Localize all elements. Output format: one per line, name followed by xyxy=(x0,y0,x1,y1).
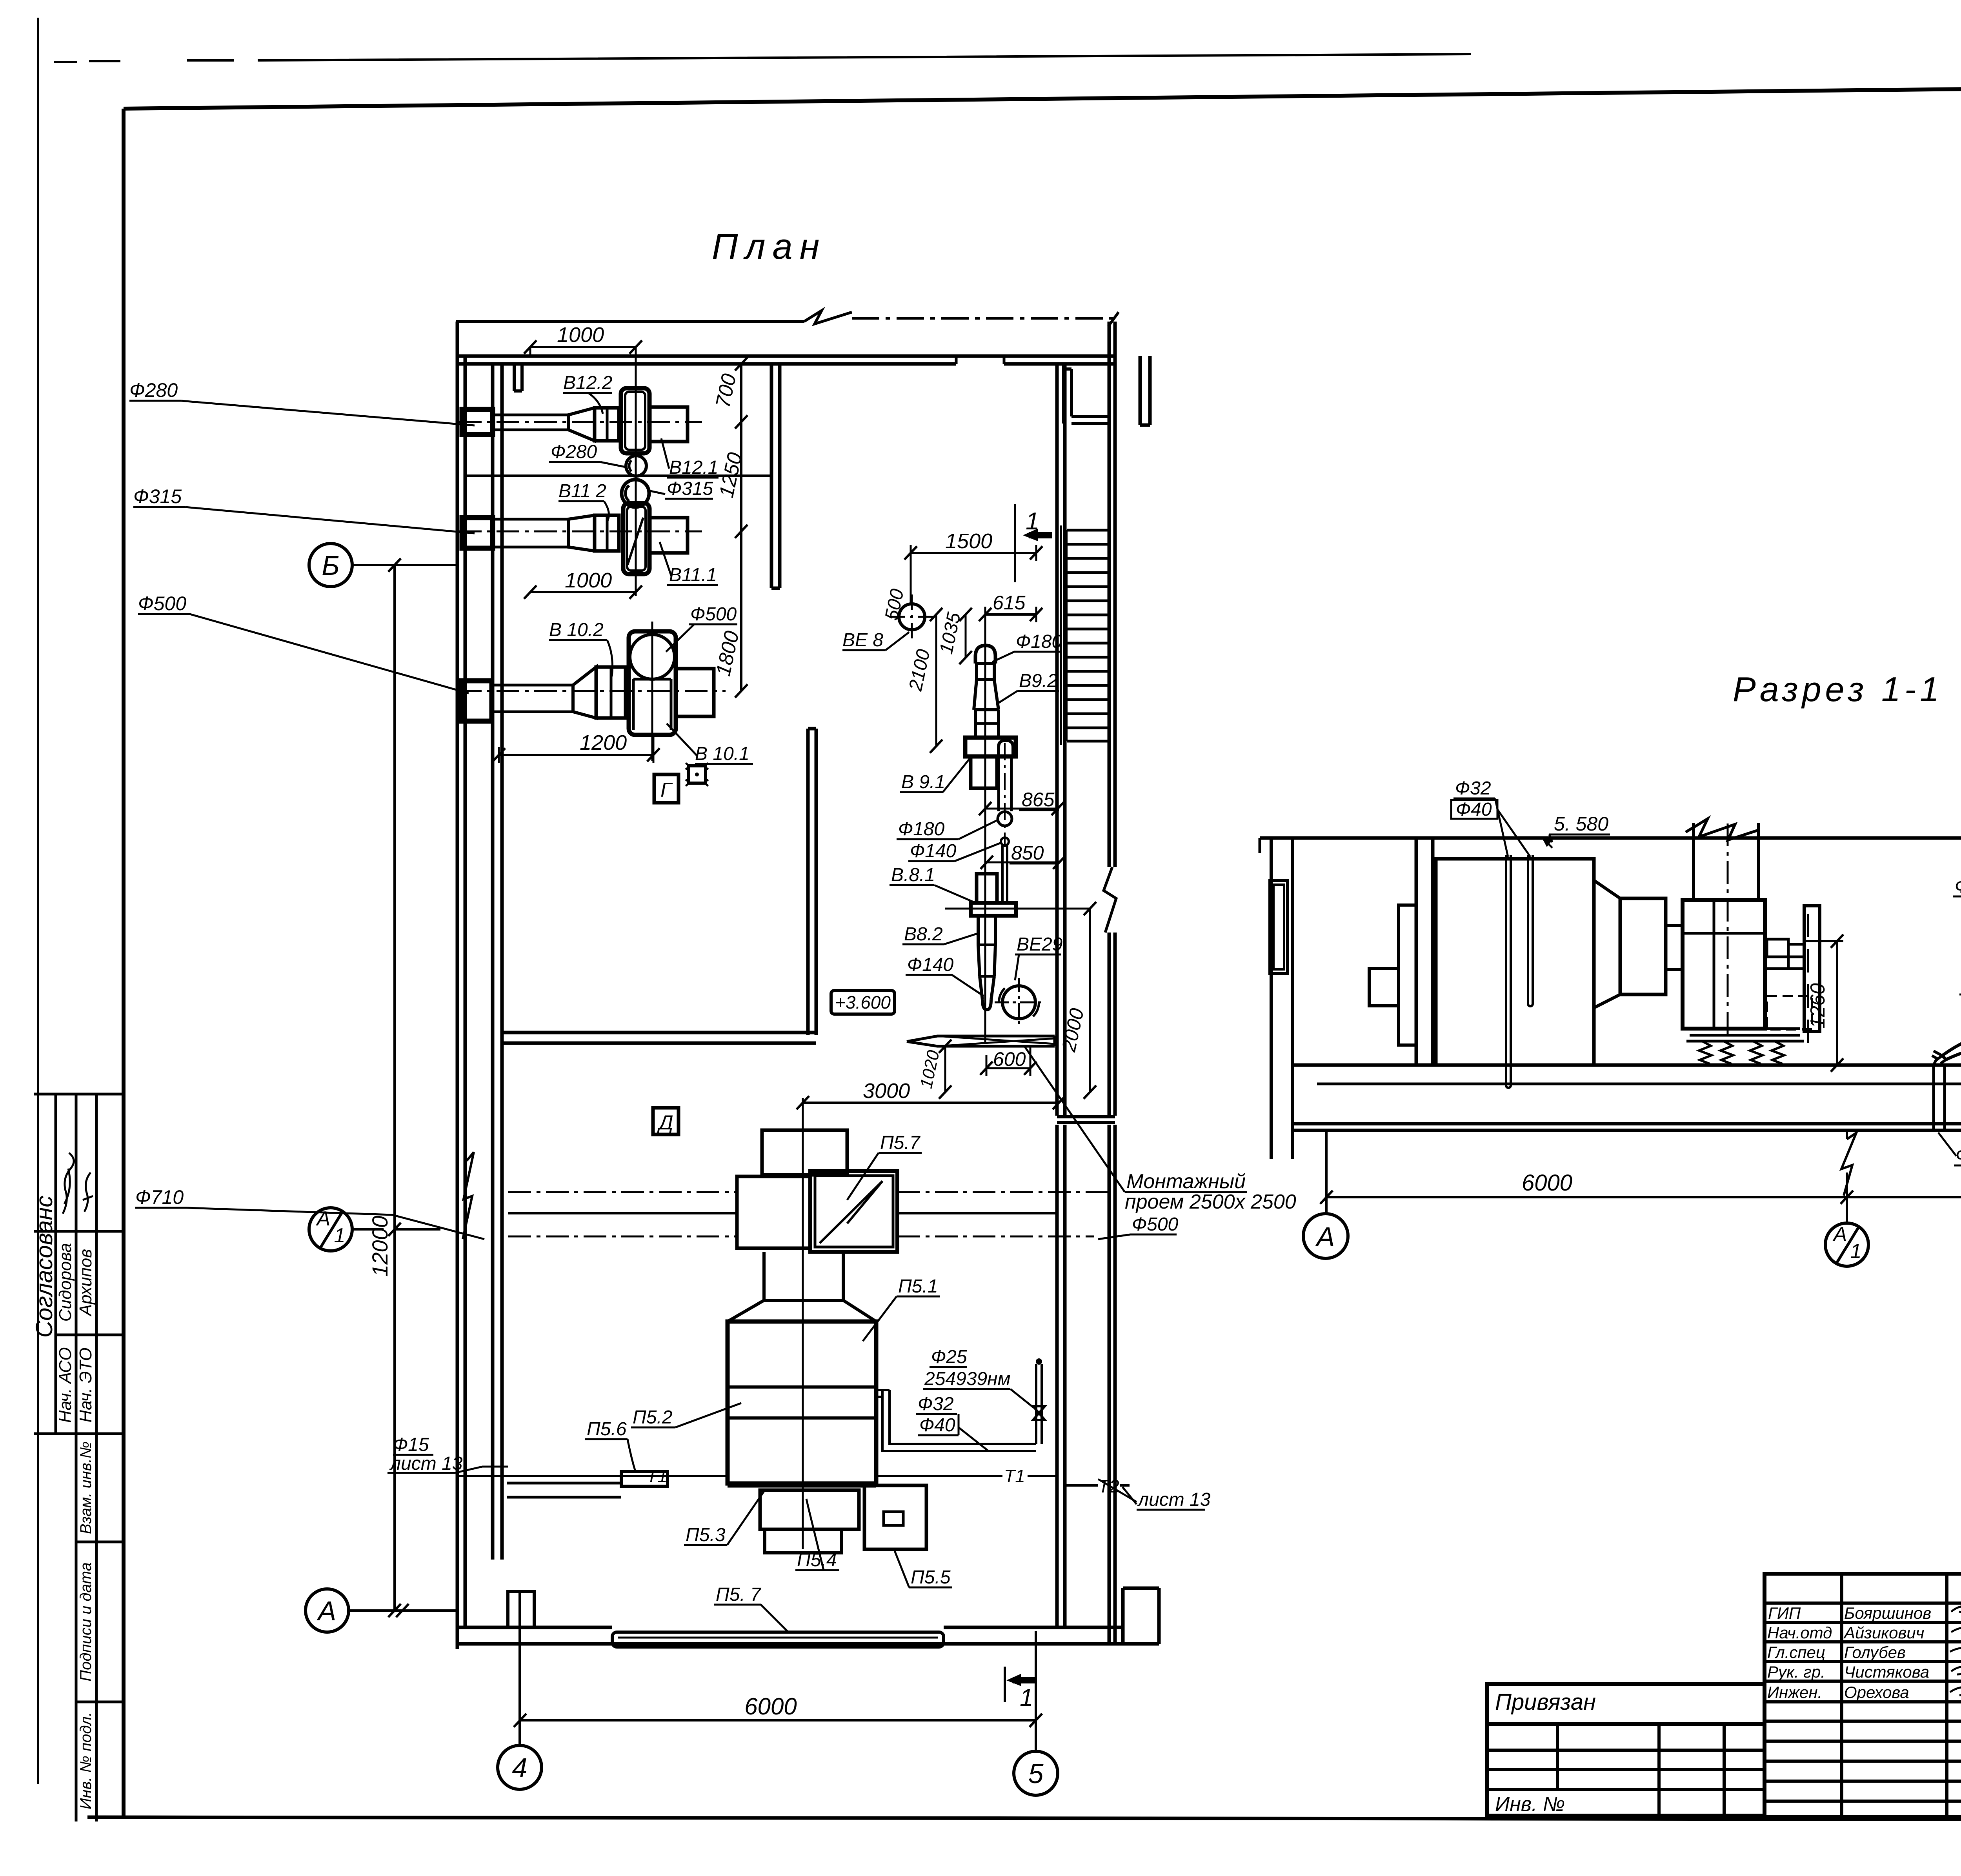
svg-text:Т1: Т1 xyxy=(646,1466,668,1486)
label F40 box xyxy=(1451,800,1497,819)
circle F280 xyxy=(626,456,646,476)
dim 2000 rotated xyxy=(945,909,1090,1092)
grid bubble 5 xyxy=(1014,1751,1058,1795)
V8 taper down xyxy=(978,916,995,1010)
dim 12000 end ticks xyxy=(388,558,401,1617)
svg-text:3000: 3000 xyxy=(863,1079,910,1103)
list 13 right label xyxy=(1137,1489,1211,1510)
svg-text:6000: 6000 xyxy=(1522,1170,1572,1196)
V11 taper xyxy=(568,515,595,551)
svg-text:5. 580: 5. 580 xyxy=(1554,813,1608,835)
dim 600 xyxy=(986,1067,1030,1069)
room line under V12 xyxy=(465,474,771,477)
svg-text:Д: Д xyxy=(657,1111,673,1134)
V8 collar xyxy=(971,903,1016,916)
svg-text:Ф500: Ф500 xyxy=(690,604,737,625)
interior chase double xyxy=(493,364,502,1560)
label F140 mid xyxy=(910,841,957,862)
discharge duct up through roof xyxy=(1694,823,1759,900)
stairs rungs xyxy=(1067,530,1109,741)
P5 vertical centerline xyxy=(802,1098,804,1549)
svg-text:12000: 12000 xyxy=(367,1216,392,1277)
dim 2100 rotated xyxy=(935,614,937,746)
V9 discharge pipe down xyxy=(999,756,1011,811)
label D box xyxy=(653,1108,679,1134)
V12 fan xyxy=(621,388,649,453)
svg-text:Ф500: Ф500 xyxy=(138,593,186,614)
door stub top left room xyxy=(514,364,522,391)
svg-text:Б: Б xyxy=(322,550,340,581)
svg-text:Ф280: Ф280 xyxy=(551,442,597,462)
supply duct lines right xyxy=(897,1191,1109,1193)
grid line 4 xyxy=(518,1591,521,1745)
svg-text:В.8.1: В.8.1 xyxy=(891,865,935,885)
svg-text:Инв. № подл.: Инв. № подл. xyxy=(77,1712,95,1809)
svg-text:Архипов: Архипов xyxy=(76,1249,95,1317)
stamp row: podpisi bottom xyxy=(76,1701,124,1703)
svg-text:1: 1 xyxy=(1020,1684,1033,1711)
svg-text:1260: 1260 xyxy=(1806,983,1829,1029)
svg-text:Рук. гр.: Рук. гр. xyxy=(1767,1663,1825,1681)
svg-text:6000: 6000 xyxy=(744,1693,797,1720)
motor top blocks xyxy=(1767,939,1788,957)
montage opening label xyxy=(1125,1170,1296,1213)
T2 line xyxy=(1065,1484,1130,1487)
svg-text:П5.2: П5.2 xyxy=(633,1407,673,1428)
stamp col line 3 xyxy=(95,1094,98,1821)
VE29 label xyxy=(1017,934,1062,955)
svg-text:1000: 1000 xyxy=(557,323,604,347)
frame top border xyxy=(124,82,1961,109)
svg-text:Ф180: Ф180 xyxy=(1016,631,1062,652)
sig squiggle r2 xyxy=(1951,1627,1961,1634)
sig row texts xyxy=(1767,1604,1931,1701)
sig squiggle r3 xyxy=(1950,1646,1961,1657)
svg-text:Нач.отд: Нач.отд xyxy=(1767,1623,1832,1642)
V10 discharge duct xyxy=(676,669,714,716)
stamp signature squiggle 1 xyxy=(63,1153,74,1214)
V10 centerline xyxy=(459,690,726,692)
grid4 column stub xyxy=(508,1591,534,1627)
svg-text:Ф500: Ф500 xyxy=(1132,1214,1179,1235)
label P5.6 xyxy=(587,1419,627,1440)
label F500 xyxy=(690,604,737,625)
svg-text:А: А xyxy=(1315,1222,1335,1252)
svg-text:Орехова: Орехова xyxy=(1844,1683,1909,1701)
svg-text:В12.2: В12.2 xyxy=(563,373,612,393)
svg-text:В 10.2: В 10.2 xyxy=(549,620,604,640)
V11 centerline xyxy=(459,531,702,533)
label F32 xyxy=(1455,778,1491,799)
stamp row: vzam inv bottom xyxy=(76,1541,124,1543)
lower-left grid col 3 xyxy=(1723,1724,1726,1816)
grid bubble 4 xyxy=(498,1745,542,1789)
P5 damper left rect xyxy=(737,1176,810,1248)
label P5.1 xyxy=(898,1276,938,1297)
label P5.7 top xyxy=(880,1133,921,1153)
svg-text:Подписи и дата: Подписи и дата xyxy=(77,1562,95,1681)
V10 fan inner lines xyxy=(633,679,671,730)
svg-text:П5.5: П5.5 xyxy=(911,1567,951,1588)
label V9.2 xyxy=(1019,671,1058,691)
V9 discharge pipe cap xyxy=(999,740,1013,756)
label V9.1 xyxy=(901,772,945,793)
heater big box xyxy=(1436,859,1594,1065)
V9.1 motor xyxy=(971,756,997,788)
lower-left grid row 3 xyxy=(1487,1788,1765,1791)
label P5.3 xyxy=(686,1525,726,1545)
P5.1 inner lines xyxy=(728,1387,876,1418)
sig squiggle r1 xyxy=(1951,1606,1961,1613)
V12 discharge duct xyxy=(649,407,688,442)
floor second line xyxy=(1317,1083,1961,1085)
V8.3 left elbow xyxy=(1932,1051,1946,1065)
top right pilaster xyxy=(1140,356,1150,425)
svg-text:Ф 140: Ф 140 xyxy=(1955,876,1961,897)
svg-text:Ф710: Ф710 xyxy=(135,1186,184,1208)
label P5.4 xyxy=(797,1550,837,1571)
F25 riser pipe xyxy=(1036,1364,1042,1444)
svg-text:П5. 7: П5. 7 xyxy=(716,1584,762,1605)
V11 duct from wall xyxy=(493,519,568,547)
partition wall upper xyxy=(771,365,780,588)
svg-text:Ф280: Ф280 xyxy=(129,379,178,401)
pipe f40 in box xyxy=(1528,855,1533,1006)
bubble A sec xyxy=(1303,1214,1348,1258)
svg-text:1: 1 xyxy=(1850,1240,1862,1263)
VE8 circle xyxy=(899,604,925,630)
bottom wall double xyxy=(458,1627,1159,1644)
svg-text:А: А xyxy=(316,1207,331,1230)
ceiling left end tick xyxy=(1259,838,1261,853)
P5.5 box xyxy=(864,1485,926,1549)
section mark 1 bottom xyxy=(1004,1667,1006,1702)
dim 500 rotated xyxy=(910,573,912,604)
svg-text:Ф25: Ф25 xyxy=(931,1347,967,1367)
dim 1020 rotated xyxy=(944,1046,946,1092)
svg-text:Инжен.: Инжен. xyxy=(1767,1683,1822,1701)
svg-text:600: 600 xyxy=(993,1048,1026,1070)
dim 1000 top xyxy=(530,346,636,348)
motor plate xyxy=(1804,906,1820,1031)
stamp row: bottom of titles xyxy=(34,1432,124,1435)
label F315 xyxy=(667,478,713,499)
svg-text:Ф315: Ф315 xyxy=(133,485,182,507)
svg-text:ГИП: ГИП xyxy=(1768,1604,1801,1622)
slab band xyxy=(1294,1124,1961,1130)
grid line A/1 xyxy=(352,1228,440,1231)
lower-left grid col 1 xyxy=(1556,1724,1559,1789)
dim 615 xyxy=(985,613,1036,616)
label F140 low xyxy=(907,954,954,975)
top wall outer dashdot right part xyxy=(852,317,1113,320)
valve xyxy=(1033,1406,1045,1420)
frame bottom border xyxy=(87,1817,1961,1820)
V9 outlet circle xyxy=(998,812,1012,826)
P5.6 duct pair xyxy=(507,1483,621,1497)
svg-text:Айзикович: Айзикович xyxy=(1843,1623,1924,1642)
svg-text:П5.7: П5.7 xyxy=(880,1133,921,1153)
label F180 outlet xyxy=(898,819,945,840)
svg-text:Гл.спец: Гл.спец xyxy=(1767,1643,1825,1661)
svg-text:Инв. №: Инв. № xyxy=(1495,1793,1565,1816)
label 5.580 xyxy=(1554,813,1608,835)
svg-text:ВЕ29: ВЕ29 xyxy=(1017,934,1062,955)
F32/F40 labels xyxy=(918,1394,954,1414)
sig col 1 xyxy=(1840,1574,1843,1817)
svg-text:П5.3: П5.3 xyxy=(686,1525,726,1545)
svg-text:П5.1: П5.1 xyxy=(898,1276,938,1297)
left wall verticals xyxy=(1271,838,1292,1159)
svg-text:П5.4: П5.4 xyxy=(797,1550,837,1571)
interior horizontal wall xyxy=(502,1033,816,1043)
P5.1 big box xyxy=(728,1322,876,1483)
grid B tick xyxy=(388,558,401,572)
svg-text:Ф140: Ф140 xyxy=(907,954,954,975)
V9.2 stack dome xyxy=(975,645,995,664)
sig squiggle r4 xyxy=(1951,1666,1961,1674)
V10 fan circle xyxy=(630,634,675,679)
right inner wall double xyxy=(1057,364,1065,1627)
V9 centerline xyxy=(984,614,986,1043)
left wall door xyxy=(1270,880,1288,974)
svg-text:1: 1 xyxy=(1026,508,1039,535)
svg-text:1: 1 xyxy=(334,1224,346,1247)
svg-text:В12.1: В12.1 xyxy=(669,457,718,478)
svg-text:Ф180: Ф180 xyxy=(898,819,945,840)
motor shaft xyxy=(1765,957,1804,969)
dim 1000 lower xyxy=(530,591,636,593)
V9.2 neck xyxy=(975,664,995,680)
svg-text:Чистякова: Чистякова xyxy=(1844,1663,1929,1681)
svg-text:Бояршинов: Бояршинов xyxy=(1844,1604,1931,1622)
grid A extension xyxy=(1325,1131,1328,1214)
break zigzag on top wall xyxy=(804,311,852,324)
label V8.1 xyxy=(891,865,935,885)
label F280 small xyxy=(551,442,597,462)
label V10.1 xyxy=(695,743,749,764)
bubble A/1 sec xyxy=(1825,1223,1868,1266)
svg-text:лист 13: лист 13 xyxy=(389,1453,463,1474)
V12 filter box xyxy=(595,408,619,441)
V11 wall sleeve xyxy=(462,518,493,548)
dim 6000 bottom line xyxy=(520,1719,1036,1721)
P5 neck xyxy=(764,1252,843,1300)
right outer wall double xyxy=(1109,322,1115,1644)
svg-text:Разрез 1-1: Разрез 1-1 xyxy=(1733,670,1943,709)
P5 damper right square xyxy=(810,1171,897,1252)
small pipe between xyxy=(1001,838,1009,845)
svg-text:В11 2: В11 2 xyxy=(558,481,606,502)
scroll body xyxy=(1683,900,1765,1029)
svg-text:Взам. инв.№: Взам. инв.№ xyxy=(77,1442,95,1534)
break zigzag right outer wall xyxy=(1104,867,1116,933)
A/1 break zigzag xyxy=(1841,1133,1856,1196)
V12 wall sleeve xyxy=(462,409,493,434)
V11 filter box xyxy=(595,515,619,551)
+3.600 box xyxy=(831,991,895,1014)
montage opening lines xyxy=(1057,1117,1115,1122)
bottom right pilaster xyxy=(1123,1588,1159,1644)
V8.3 drop pipe xyxy=(1934,1065,1945,1131)
grid A/1 extension xyxy=(1846,1131,1848,1223)
svg-text:254939нм: 254939нм xyxy=(924,1369,1011,1389)
grid line B xyxy=(352,564,459,566)
svg-text:5: 5 xyxy=(1028,1758,1044,1789)
V10 filter box xyxy=(596,667,626,718)
heating pipe loop xyxy=(882,1390,902,1451)
V12 centerline xyxy=(459,421,702,423)
P5.6 box xyxy=(621,1471,668,1486)
svg-text:П5.6: П5.6 xyxy=(587,1419,627,1440)
lower-left grid col 2 xyxy=(1657,1724,1661,1816)
svg-text:1200: 1200 xyxy=(580,731,627,754)
scroll inner lines xyxy=(1683,900,1765,1029)
dim 850 xyxy=(1011,842,1044,864)
top wall inner double line xyxy=(456,356,1115,364)
spring right xyxy=(1750,1041,1784,1064)
VE29 circle xyxy=(1002,986,1035,1019)
T1 line xyxy=(459,1475,1057,1477)
V11 fan xyxy=(623,503,649,574)
label P5.5 xyxy=(911,1567,951,1588)
grid bubble B xyxy=(309,544,352,587)
floor top line xyxy=(1292,1063,1961,1067)
label F15 / list 13 xyxy=(389,1434,463,1474)
grid5 tick xyxy=(1030,1714,1042,1727)
break zigzag at wall A/1 xyxy=(463,1152,474,1239)
label P5.7 bottom xyxy=(716,1584,762,1605)
svg-text:Ф32: Ф32 xyxy=(1455,778,1491,799)
P5 cone xyxy=(728,1300,876,1322)
text 6000 left xyxy=(1522,1170,1572,1196)
P5 top rect xyxy=(762,1130,847,1175)
dim 1500 xyxy=(911,552,1036,554)
A/1 tick at 12000 line xyxy=(388,1223,401,1236)
svg-text:850: 850 xyxy=(1011,842,1044,864)
stamp row: bottom of signatures xyxy=(34,1230,124,1233)
V9.2 lower body xyxy=(975,710,999,738)
grid A tick xyxy=(396,1604,409,1617)
dim 1035 rotated xyxy=(965,614,967,658)
svg-text:ВЕ 8: ВЕ 8 xyxy=(842,630,883,651)
label V11 2 xyxy=(558,481,606,502)
leaders F32 F40 xyxy=(1495,798,1530,857)
stamp col line 2 xyxy=(75,1094,78,1821)
section mark 1 top xyxy=(1014,504,1016,582)
svg-text:Сидорова: Сидорова xyxy=(56,1243,75,1322)
heater slab columns xyxy=(1416,840,1433,1065)
circle F315 xyxy=(622,480,649,507)
sig squiggles col3 xyxy=(1950,1606,1961,1695)
svg-text:В 9.1: В 9.1 xyxy=(901,772,945,793)
V12 duct from wall xyxy=(493,415,568,430)
ceiling line xyxy=(1260,836,1961,840)
V10 fan square xyxy=(629,631,676,735)
svg-text:Г: Г xyxy=(660,779,673,802)
left bracket small xyxy=(1369,969,1399,1006)
sig col 2 xyxy=(1945,1574,1948,1817)
dim ticks xyxy=(1320,1191,1961,1204)
left bracket big xyxy=(1399,905,1416,1045)
supply duct lines left xyxy=(508,1191,737,1193)
stamp outer top line xyxy=(34,1093,124,1096)
P5.7 long grille xyxy=(612,1632,944,1647)
signature table outline xyxy=(1765,1574,1961,1817)
closet wall top right xyxy=(1064,364,1109,424)
stairs left rail xyxy=(1061,525,1066,745)
label F140 sec xyxy=(1955,876,1961,897)
sig rows xyxy=(1765,1603,1961,1801)
pipe f32 in box xyxy=(1506,855,1511,1088)
svg-text:Голубев: Голубев xyxy=(1844,1643,1906,1661)
label V12.1 xyxy=(669,457,718,478)
frame left border xyxy=(122,109,126,1818)
svg-text:615: 615 xyxy=(993,592,1026,614)
sig squiggle r5 xyxy=(1950,1687,1961,1695)
partition wall lower xyxy=(808,729,816,1035)
left outer wall double xyxy=(457,322,465,1649)
svg-text:1000: 1000 xyxy=(565,569,612,592)
V8 upper box xyxy=(977,874,997,903)
flag square symbol xyxy=(688,766,706,783)
label V10.2 xyxy=(549,620,604,640)
svg-text:лист 13: лист 13 xyxy=(1137,1489,1211,1510)
grid line A xyxy=(349,1609,459,1612)
top wall outer line xyxy=(456,320,804,323)
sheet left edge xyxy=(37,18,39,1784)
svg-text:Ф40: Ф40 xyxy=(1456,799,1492,820)
left margin labels F280/F315/F500/F710 xyxy=(129,379,186,1208)
dim 12000 vertical line xyxy=(393,565,396,1611)
spring left xyxy=(1699,1041,1733,1064)
svg-text:проем 2500х 2500: проем 2500х 2500 xyxy=(1125,1191,1296,1213)
V9.1 collar xyxy=(965,738,1016,756)
label F180 v92 xyxy=(1016,631,1062,652)
dim 865 xyxy=(1022,789,1055,811)
label V8.2 xyxy=(904,924,943,945)
V11 discharge duct xyxy=(649,518,688,553)
svg-text:Согласованс: Согласованс xyxy=(31,1196,57,1338)
dims column 700/1250/1800 xyxy=(740,364,742,691)
svg-text:4: 4 xyxy=(512,1752,528,1783)
VE8 label xyxy=(842,630,883,651)
svg-text:Ф40: Ф40 xyxy=(919,1415,955,1436)
dim 1260 xyxy=(1836,941,1838,1065)
svg-text:1500: 1500 xyxy=(945,529,992,553)
label P5.2 xyxy=(633,1407,673,1428)
dim 3000 xyxy=(803,1102,1059,1104)
dim line 6000s xyxy=(1326,1196,1961,1198)
break zigzag on duct xyxy=(1686,819,1759,840)
dim 6000 bottom ticks xyxy=(514,1714,1042,1727)
svg-text:Монтажный: Монтажный xyxy=(1126,1170,1246,1193)
svg-text:Нач. АСО: Нач. АСО xyxy=(56,1347,75,1423)
svg-text:Нач. ЭТО: Нач. ЭТО xyxy=(76,1347,95,1422)
base plate xyxy=(1686,1029,1804,1041)
door jambs top wall xyxy=(956,356,1004,364)
label G box xyxy=(654,774,679,803)
F25 label xyxy=(931,1347,967,1367)
V12 vertical centerline xyxy=(635,369,637,596)
V8.3 muffler xyxy=(1942,1030,1961,1060)
grid bubble A xyxy=(306,1589,349,1632)
floor opening bar xyxy=(907,1036,1055,1046)
svg-text:План: План xyxy=(712,227,826,267)
fan inlet box xyxy=(1620,898,1666,994)
svg-text:Ф15: Ф15 xyxy=(393,1434,429,1455)
grid line 5 xyxy=(1035,1631,1037,1751)
